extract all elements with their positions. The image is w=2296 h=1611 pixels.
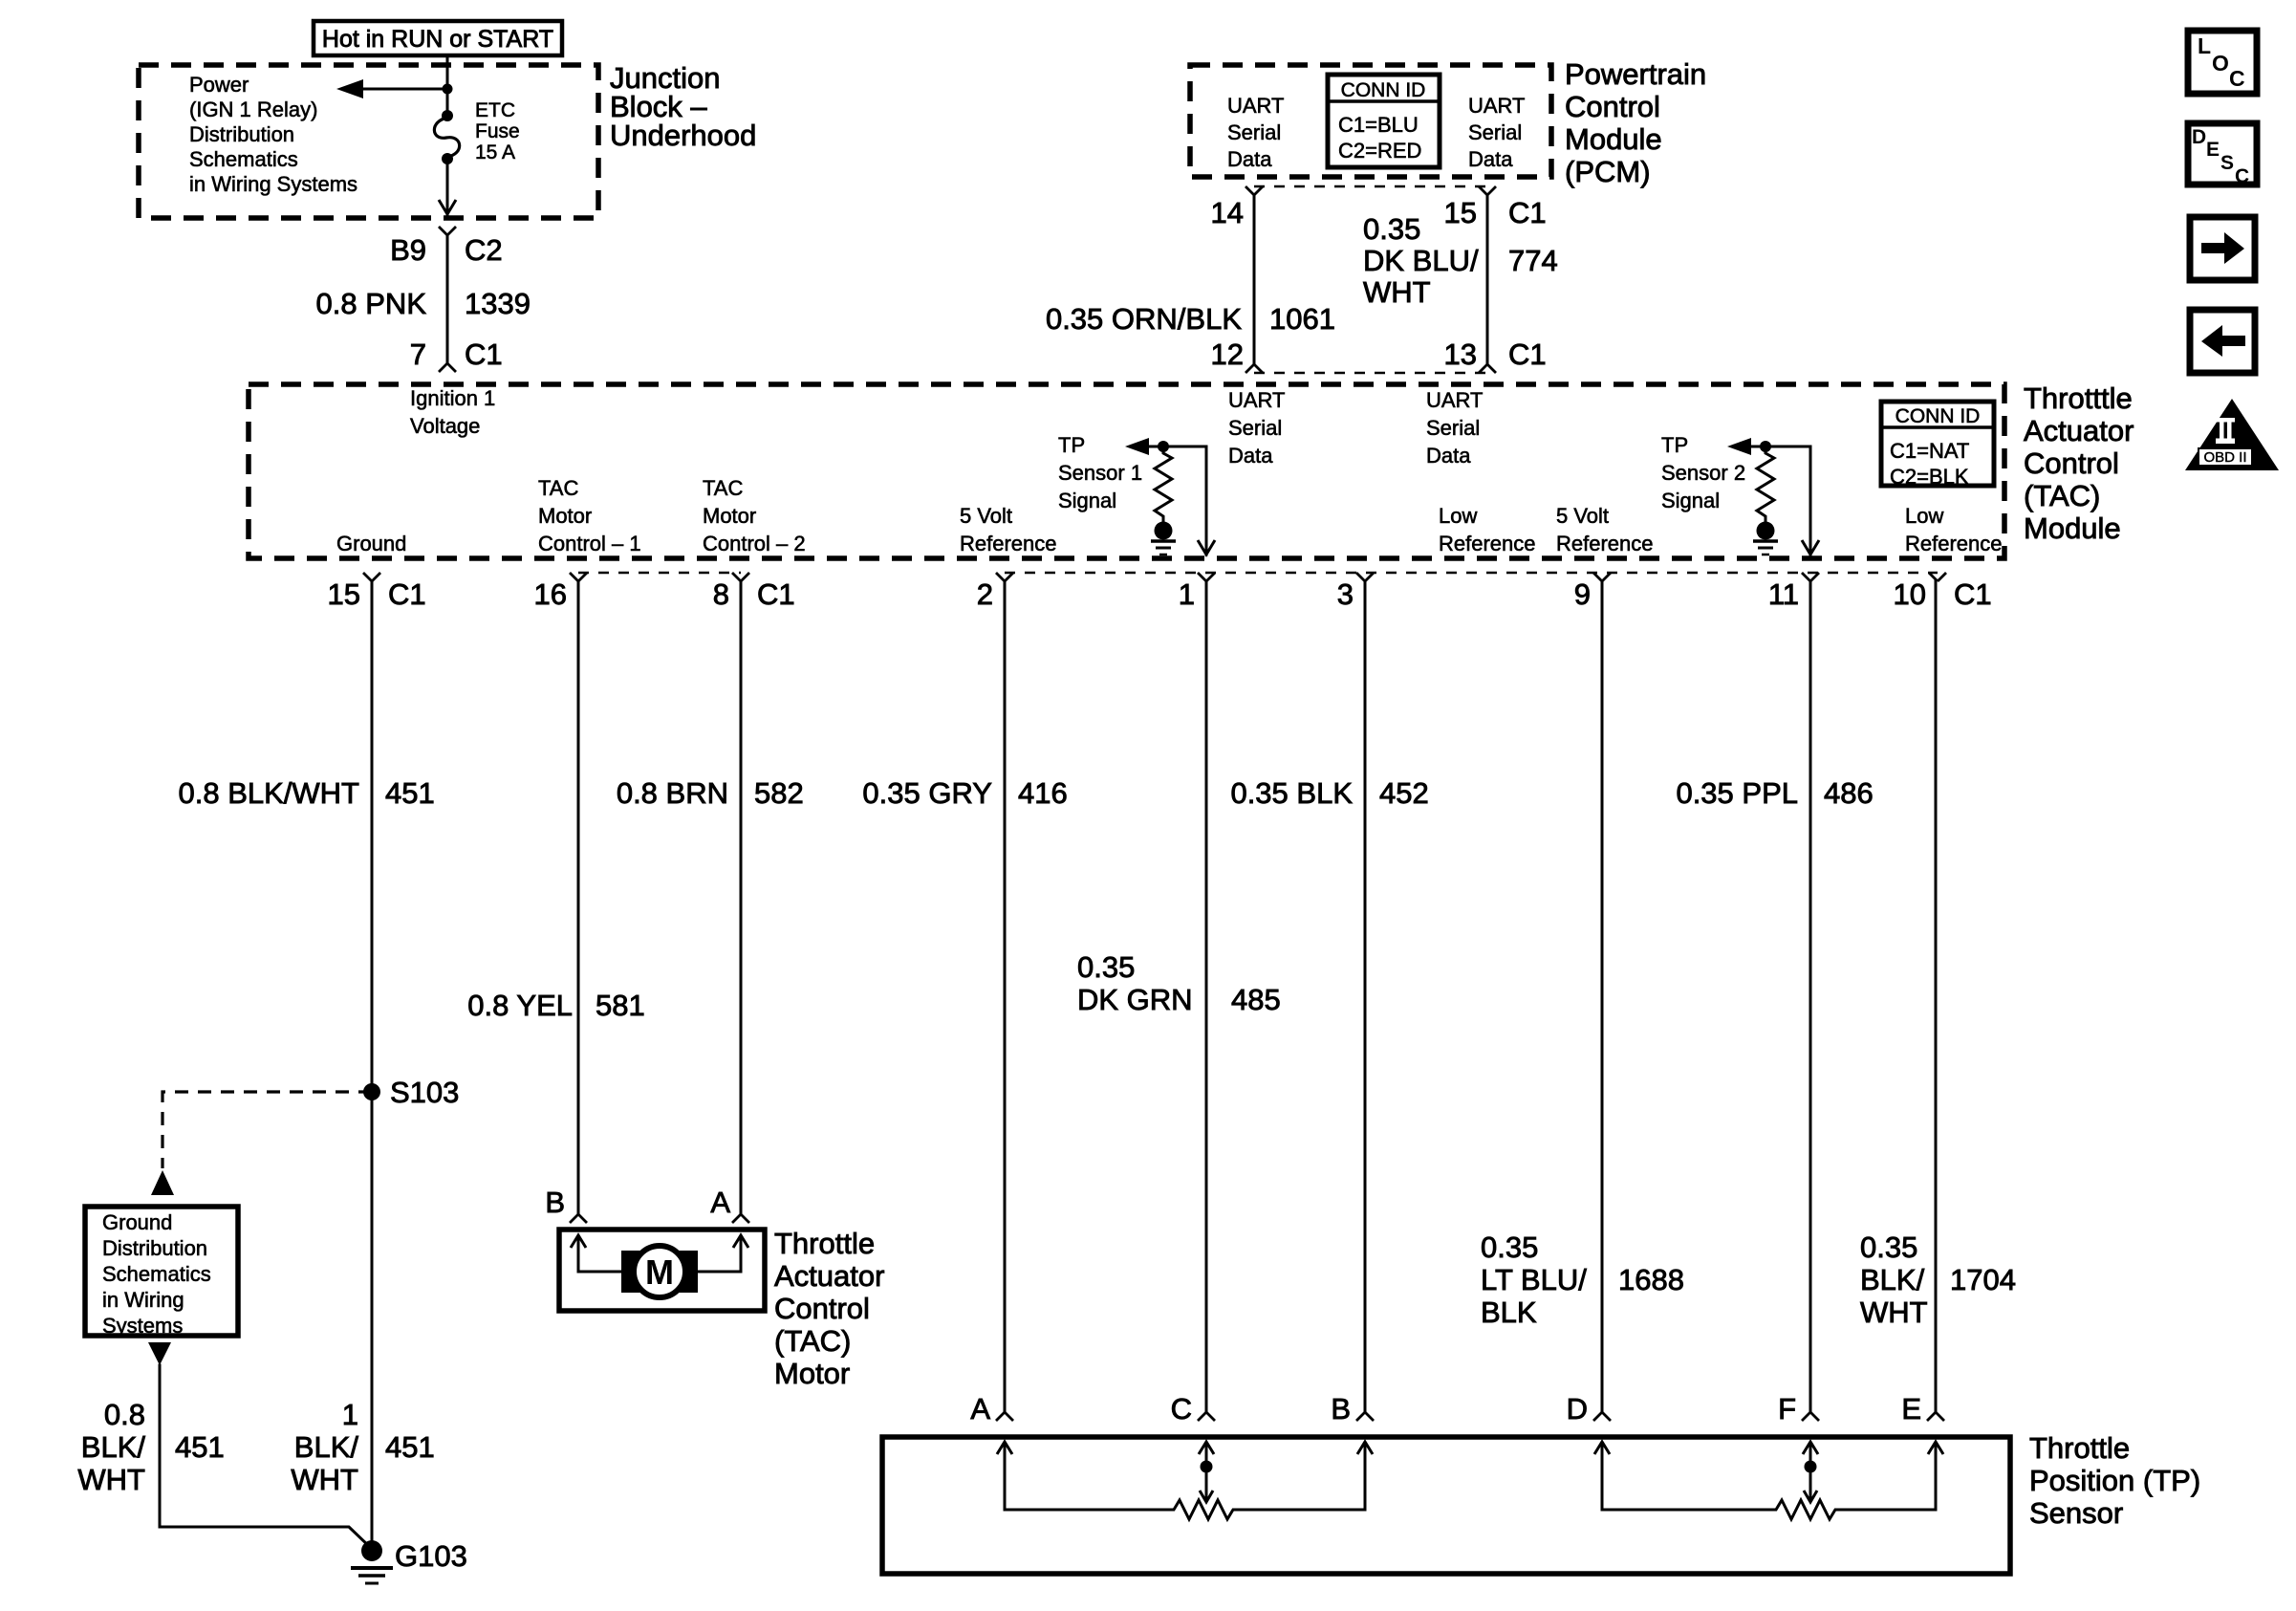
svg-text:Reference: Reference (1439, 532, 1536, 555)
svg-text:G103: G103 (395, 1539, 467, 1573)
svg-text:1688: 1688 (1618, 1263, 1684, 1296)
net label: TAC Motor Control - 1 (538, 476, 641, 555)
resistor (TAC internal, TP sensor 2 signal) (1757, 446, 1774, 522)
svg-text:8: 8 (713, 577, 729, 611)
connector pin C (TP sensor) (1171, 1392, 1215, 1426)
connector pin A (TP sensor) (970, 1392, 1013, 1426)
svg-text:UART: UART (1468, 94, 1526, 118)
svg-text:Signal: Signal (1661, 489, 1720, 512)
net label: Ignition 1 Voltage (410, 386, 495, 438)
svg-text:0.8 YEL: 0.8 YEL (467, 989, 573, 1022)
svg-text:1061: 1061 (1269, 302, 1335, 336)
svg-text:Throttle: Throttle (774, 1227, 875, 1260)
net label: 5 Volt Reference (pin 2) (960, 504, 1057, 555)
svg-text:1339: 1339 (465, 287, 531, 320)
svg-text:9: 9 (1574, 577, 1591, 611)
svg-text:1: 1 (1179, 577, 1195, 611)
connector pin F (TP sensor) (1778, 1392, 1819, 1426)
wire: 0.35 DK GRN 485 TP sensor 1 signal to TP sensor C (1077, 581, 1281, 1412)
svg-text:C1=BLU: C1=BLU (1338, 113, 1419, 137)
svg-text:A: A (970, 1392, 990, 1426)
svg-text:Data: Data (1426, 444, 1471, 468)
connector C1 pin 3 (TAC module) (1337, 573, 1374, 611)
svg-text:0.35 PPL: 0.35 PPL (1676, 776, 1798, 810)
ground (TAC internal, sensor 1) (1151, 522, 1176, 555)
connector pin E (TP sensor) (1901, 1392, 1944, 1426)
svg-text:Data: Data (1228, 444, 1273, 468)
TAC CONN ID legend box C1=NAT C2=BLK (1881, 402, 1994, 489)
svg-text:Reference: Reference (1905, 532, 2003, 555)
TP sensor internal terminal arrow (1594, 1442, 1610, 1510)
connector C1 pin 12 (PCM side at TAC) (1211, 337, 1263, 373)
svg-text:Low: Low (1905, 504, 1943, 528)
svg-text:16: 16 (534, 577, 567, 611)
TAC UART serial data label (right) (1426, 388, 1484, 468)
svg-text:(PCM): (PCM) (1565, 155, 1651, 188)
wire: 0.35 LT BLU/BLK 1688 5 volt reference to TP sensor D (1481, 581, 1684, 1412)
svg-text:Motor: Motor (703, 504, 756, 528)
TP sensor internal terminal arrow (1928, 1442, 1943, 1510)
svg-text:0.8 BLK/WHT: 0.8 BLK/WHT (179, 776, 360, 810)
ground distribution reference box (85, 1207, 238, 1338)
wire: 0.8 BRN 582 TAC motor control 2 (617, 581, 804, 1214)
svg-text:Sensor 1: Sensor 1 (1058, 461, 1142, 485)
TAC UART serial data label (left) (1228, 388, 1286, 468)
svg-text:S: S (2220, 152, 2234, 174)
connector pin D (TP sensor) (1567, 1392, 1611, 1426)
svg-text:0.35: 0.35 (1860, 1230, 1917, 1264)
svg-text:Powertrain: Powertrain (1565, 57, 1706, 91)
net label: Ground (336, 532, 406, 555)
svg-text:ETC: ETC (475, 99, 515, 121)
PCM CONN ID legend box C1=BLU C2=RED (1328, 75, 1440, 167)
svg-text:C1: C1 (757, 577, 795, 611)
splice S103 (363, 1076, 459, 1109)
wire: 0.8 BLK/WHT 451 from ground distribution to G103 (77, 1342, 372, 1549)
svg-text:Reference: Reference (960, 532, 1057, 555)
svg-text:13: 13 (1444, 337, 1477, 371)
svg-text:DK GRN: DK GRN (1077, 983, 1193, 1016)
wire: TP sensor 1 signal to pin 1 with arrow (1198, 446, 1215, 555)
svg-text:in Wiring Systems: in Wiring Systems (189, 172, 357, 196)
TP sensor internal terminal arrow (997, 1442, 1012, 1510)
svg-text:C: C (2229, 66, 2245, 91)
wire: 0.35 BLK 452 low reference to TP sensor B (1230, 581, 1428, 1412)
svg-text:in Wiring: in Wiring (102, 1288, 184, 1312)
svg-text:2: 2 (977, 577, 993, 611)
svg-text:C1: C1 (1508, 337, 1547, 371)
svg-text:451: 451 (385, 776, 435, 810)
svg-text:B: B (1331, 1392, 1351, 1426)
svg-text:451: 451 (175, 1430, 225, 1464)
svg-text:0.8: 0.8 (104, 1398, 145, 1431)
svg-text:UART: UART (1227, 94, 1285, 118)
svg-text:C2: C2 (465, 233, 503, 267)
svg-text:15: 15 (328, 577, 360, 611)
net label: TP Sensor 1 Signal (1058, 433, 1142, 512)
svg-text:WHT: WHT (291, 1463, 358, 1496)
net label: Low Reference (pin 10) (1905, 504, 2003, 555)
wire label: 1 BLK/WHT 451 (main ground wire) (291, 1398, 434, 1496)
svg-text:0.35 ORN/BLK: 0.35 ORN/BLK (1046, 302, 1242, 336)
svg-text:D: D (1567, 1392, 1588, 1426)
net label: TP Sensor 2 Signal (1661, 433, 1745, 512)
svg-text:(TAC): (TAC) (774, 1324, 851, 1358)
connector C1 pin 2 (TAC module) (977, 573, 1013, 611)
svg-text:0.35: 0.35 (1481, 1230, 1538, 1264)
svg-text:(TAC): (TAC) (2024, 479, 2100, 512)
svg-text:Control: Control (1565, 90, 1660, 123)
PCM UART serial data label (right) (1468, 94, 1526, 171)
svg-text:BLK: BLK (1481, 1295, 1537, 1329)
resistor (TAC internal, TP sensor 1 signal) (1155, 446, 1172, 522)
wire: feed from hot bus into junction block (446, 55, 449, 115)
svg-text:Serial: Serial (1468, 120, 1522, 144)
connector C1 pin 15 (TAC module) (328, 573, 426, 611)
legend icon: back arrow box (2190, 310, 2255, 373)
motor M internal wiring with arrows (571, 1235, 748, 1272)
svg-text:BLK/: BLK/ (81, 1430, 146, 1464)
svg-text:C2=BLK: C2=BLK (1890, 465, 1969, 489)
svg-text:UART: UART (1228, 388, 1286, 412)
svg-text:Data: Data (1227, 147, 1272, 171)
connector pin B (TP sensor) (1331, 1392, 1374, 1426)
svg-text:Module: Module (2024, 512, 2121, 545)
legend icon: OBD II triangle (2185, 399, 2279, 470)
svg-text:Ground: Ground (336, 532, 406, 555)
svg-text:Low: Low (1439, 504, 1477, 528)
TAC connector group dashed line (pins 2-10) (1005, 572, 1938, 575)
svg-text:TP: TP (1058, 433, 1085, 457)
PCM connector group dashed outline (1254, 186, 1487, 373)
svg-text:5 Volt: 5 Volt (1556, 504, 1609, 528)
svg-text:1: 1 (342, 1398, 358, 1431)
throttle position TP sensor box (882, 1437, 2010, 1574)
ground (TAC internal, sensor 2) (1753, 522, 1778, 555)
svg-text:OBD II: OBD II (2203, 449, 2246, 466)
connector C1 pin 11 (TAC module) (1768, 573, 1819, 611)
connector C2 pin B9 (junction block output) (390, 227, 503, 267)
legend icon: forward arrow box (2190, 217, 2255, 280)
svg-text:Control – 2: Control – 2 (703, 532, 806, 555)
svg-text:Actuator: Actuator (2024, 414, 2134, 447)
svg-text:582: 582 (754, 776, 804, 810)
svg-text:C: C (2235, 165, 2249, 187)
wire: 0.35 ORN/BLK 1061 UART serial data (1046, 195, 1335, 363)
svg-text:F: F (1778, 1392, 1796, 1426)
svg-text:CONN ID: CONN ID (1341, 79, 1426, 101)
legend icon: LOC box (2188, 31, 2257, 94)
connector pin A (TAC motor) (710, 1186, 749, 1223)
svg-text:Control: Control (774, 1292, 870, 1325)
TAC motor title (774, 1227, 884, 1390)
svg-text:(IGN 1 Relay): (IGN 1 Relay) (189, 98, 317, 121)
throttle actuator control TAC motor box (559, 1230, 765, 1311)
connector C1 pin 14 (PCM) (1211, 186, 1263, 229)
resistor (TP sensor 1 potentiometer track) (1005, 1500, 1365, 1519)
svg-text:Fuse: Fuse (475, 120, 520, 142)
PCM UART serial data label (left) (1227, 94, 1285, 171)
svg-text:0.35 BLK: 0.35 BLK (1230, 776, 1353, 810)
svg-text:Throtttle: Throtttle (2024, 381, 2133, 415)
svg-text:Throttle: Throttle (2029, 1431, 2130, 1465)
svg-text:WHT: WHT (1860, 1295, 1928, 1329)
svg-text:Power: Power (189, 73, 249, 97)
wire: TP sensor 2 signal to pin 11 with arrow (1802, 446, 1819, 555)
svg-text:C2=RED: C2=RED (1338, 139, 1421, 163)
svg-text:Distribution: Distribution (189, 122, 294, 146)
TP sensor wiper arm with arrow (1199, 1442, 1214, 1502)
svg-text:C1: C1 (465, 337, 503, 371)
wire: 0.35 PPL 486 TP sensor 2 signal to TP sensor F (1676, 581, 1873, 1412)
connector C1 pin 8 (TAC module) (713, 573, 795, 611)
fuse ETC 15 A (434, 99, 519, 164)
net label: TAC Motor Control - 2 (703, 476, 806, 555)
connector pin B (TAC motor) (545, 1186, 587, 1223)
svg-text:D: D (2192, 126, 2206, 148)
net label: Low Reference (pin 3) (1439, 504, 1536, 555)
wire: 0.35 GRY 416 5 volt reference to TP sensor A (862, 581, 1067, 1412)
svg-text:486: 486 (1824, 776, 1874, 810)
svg-text:Data: Data (1468, 147, 1513, 171)
TP sensor 1 signal internal circuit: arrow, node, resistor, ground (1125, 438, 1206, 455)
svg-text:Reference: Reference (1556, 532, 1654, 555)
wire: 0.8 YEL 581 TAC motor control 1 (467, 581, 644, 1214)
svg-text:B: B (545, 1186, 565, 1219)
wire: branch with arrow to power distribution (336, 79, 447, 98)
svg-text:452: 452 (1379, 776, 1429, 810)
connector C1 pin 16 (TAC module) (534, 573, 587, 611)
PCM title (1565, 57, 1706, 188)
svg-text:581: 581 (596, 989, 645, 1022)
svg-text:Sensor: Sensor (2029, 1496, 2123, 1530)
svg-text:Position (TP): Position (TP) (2029, 1464, 2200, 1497)
svg-text:0.8 BRN: 0.8 BRN (617, 776, 728, 810)
power source label box "Hot in RUN or START" (314, 21, 562, 55)
connector C1 pin 10 (TAC module) (1894, 573, 1992, 611)
svg-text:UART: UART (1426, 388, 1484, 412)
powertrain control module PCM dashed box (1190, 65, 1551, 177)
connector C1 pin 13 (PCM side at TAC) (1444, 337, 1547, 373)
connector C1 pin 15 (PCM) (1444, 186, 1547, 229)
throttle actuator control TAC module dashed box (249, 384, 2004, 558)
svg-text:TAC: TAC (703, 476, 743, 500)
svg-text:B9: B9 (390, 233, 426, 267)
TAC module title (2024, 381, 2134, 545)
svg-text:WHT: WHT (77, 1463, 145, 1496)
svg-text:12: 12 (1211, 337, 1244, 371)
svg-text:Motor: Motor (774, 1357, 850, 1390)
svg-text:Serial: Serial (1228, 416, 1282, 440)
TAC connector group dashed line (pins 16-8) (578, 572, 741, 575)
svg-text:BLK/: BLK/ (1860, 1263, 1925, 1296)
connector C1 pin 9 (TAC module) (1574, 573, 1611, 611)
svg-text:Ground: Ground (102, 1210, 172, 1234)
svg-text:O: O (2212, 51, 2229, 76)
svg-text:DK BLU/: DK BLU/ (1363, 244, 1479, 277)
svg-text:Serial: Serial (1227, 120, 1281, 144)
connector C1 pin 7 (TAC module ignition input) (410, 337, 503, 372)
svg-text:TP: TP (1661, 433, 1688, 457)
svg-text:E: E (2206, 139, 2220, 161)
svg-text:Module: Module (1565, 122, 1662, 156)
svg-text:15 A: 15 A (475, 142, 515, 163)
TP sensor internal terminal arrow (1357, 1442, 1373, 1510)
resistor (TP sensor 2 potentiometer track) (1602, 1500, 1936, 1519)
wire: dashed branch from S103 to ground distribution (151, 1092, 372, 1195)
svg-text:C1: C1 (388, 577, 426, 611)
svg-text:0.8 PNK: 0.8 PNK (316, 287, 427, 320)
svg-text:Underhood: Underhood (610, 119, 756, 152)
svg-text:M: M (645, 1252, 674, 1292)
svg-text:C1=NAT: C1=NAT (1890, 439, 1969, 463)
svg-text:Schematics: Schematics (102, 1262, 211, 1286)
svg-text:C: C (1171, 1392, 1192, 1426)
svg-text:LT BLU/: LT BLU/ (1481, 1263, 1587, 1296)
svg-text:Sensor 2: Sensor 2 (1661, 461, 1745, 485)
svg-text:14: 14 (1211, 196, 1244, 229)
svg-text:0.35: 0.35 (1077, 950, 1135, 984)
svg-text:Voltage: Voltage (410, 414, 480, 438)
svg-text:10: 10 (1894, 577, 1926, 611)
wire: fuse output down to junction block edge (439, 159, 456, 214)
svg-text:11: 11 (1768, 577, 1799, 611)
svg-text:C1: C1 (1508, 196, 1547, 229)
svg-text:Actuator: Actuator (774, 1259, 884, 1293)
svg-text:Systems: Systems (102, 1314, 183, 1338)
legend icon: DESC box (2188, 123, 2257, 187)
svg-text:Control – 1: Control – 1 (538, 532, 641, 555)
ground G103 (351, 1539, 467, 1583)
svg-text:416: 416 (1018, 776, 1068, 810)
svg-text:485: 485 (1231, 983, 1281, 1016)
wire: 0.8 PNK 1339 (316, 235, 531, 363)
svg-text:BLK/: BLK/ (294, 1430, 359, 1464)
svg-text:0.35: 0.35 (1363, 212, 1420, 246)
svg-text:Serial: Serial (1426, 416, 1480, 440)
svg-text:L: L (2198, 33, 2211, 58)
svg-text:Motor: Motor (538, 504, 592, 528)
svg-text:Hot in RUN or START: Hot in RUN or START (322, 26, 553, 53)
wire: 0.8 BLK/WHT 451 ground from TAC pin 15 (179, 581, 435, 1551)
svg-text:7: 7 (410, 337, 426, 371)
svg-text:Ignition 1: Ignition 1 (410, 386, 495, 410)
svg-text:5 Volt: 5 Volt (960, 504, 1012, 528)
node: branch to IGN 1 relay feed (443, 84, 453, 95)
wire: 0.35 BLK/WHT 1704 low reference to TP sensor E (1860, 581, 2016, 1412)
svg-text:1704: 1704 (1950, 1263, 2016, 1296)
TP sensor wiper arm with arrow (1803, 1442, 1818, 1502)
svg-text:CONN ID: CONN ID (1895, 405, 1981, 427)
TP sensor 2 signal internal circuit: arrow, node, resistor, ground (1727, 438, 1810, 455)
TP sensor title (2029, 1431, 2200, 1530)
svg-text:A: A (710, 1186, 730, 1219)
svg-text:Schematics: Schematics (189, 147, 298, 171)
svg-text:774: 774 (1508, 244, 1558, 277)
svg-text:C1: C1 (1954, 577, 1992, 611)
svg-text:Control: Control (2024, 446, 2119, 480)
svg-text:3: 3 (1337, 577, 1354, 611)
connector C1 pin 1 (TAC module) (1179, 573, 1215, 611)
wire: 0.35 DK BLU/WHT 774 UART serial data (1363, 195, 1558, 363)
svg-text:S103: S103 (390, 1076, 459, 1109)
svg-text:TAC: TAC (538, 476, 578, 500)
svg-text:15: 15 (1444, 196, 1477, 229)
motor M (TAC motor) (621, 1246, 698, 1297)
svg-text:E: E (1901, 1392, 1921, 1426)
junction block title (610, 61, 756, 152)
svg-text:451: 451 (385, 1430, 435, 1464)
net label: 5 Volt Reference (pin 9) (1556, 504, 1654, 555)
svg-text:0.35 GRY: 0.35 GRY (862, 776, 992, 810)
power distribution reference note (189, 73, 357, 196)
svg-text:Distribution: Distribution (102, 1236, 207, 1260)
svg-text:WHT: WHT (1363, 275, 1431, 309)
junction block - underhood dashed box (139, 65, 598, 218)
svg-text:Signal: Signal (1058, 489, 1116, 512)
